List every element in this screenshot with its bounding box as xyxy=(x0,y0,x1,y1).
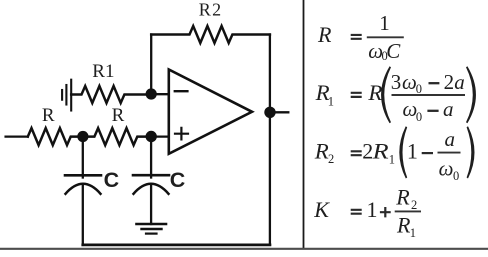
svg-text:0: 0 xyxy=(453,169,459,183)
numerator minus xyxy=(429,82,440,84)
svg-text:a: a xyxy=(454,70,465,94)
plus symbol xyxy=(175,128,188,140)
resistor R1 xyxy=(71,86,151,103)
resistor R (left) xyxy=(28,128,83,145)
svg-text:a: a xyxy=(445,127,456,151)
svg-text:ω: ω xyxy=(439,156,454,180)
svg-text:0: 0 xyxy=(416,110,422,124)
minus xyxy=(422,152,433,154)
wire C1 to bottom rail xyxy=(82,185,84,245)
svg-text:C: C xyxy=(104,168,120,192)
svg-text:1: 1 xyxy=(379,11,390,35)
wire minus node to op-amp xyxy=(151,93,169,95)
fraction bar xyxy=(438,152,461,154)
capacitor C1 plate xyxy=(65,174,101,177)
wire input lead xyxy=(6,135,28,137)
formula row 2: R1 = R((3w0-2a)/(w0-a)) xyxy=(315,66,476,124)
fraction bar xyxy=(367,36,404,38)
svg-text:R: R xyxy=(371,139,389,164)
capacitor C2 top lead xyxy=(150,137,152,178)
svg-text:R: R xyxy=(112,105,125,126)
wire to plus input xyxy=(151,135,169,137)
minus symbol xyxy=(175,90,188,92)
svg-text:a: a xyxy=(443,97,454,121)
formula row 4: K = 1 + R2/R1 xyxy=(313,185,421,240)
svg-text:R: R xyxy=(317,22,332,47)
svg-text:R: R xyxy=(395,185,410,210)
svg-text:1: 1 xyxy=(389,152,395,166)
equals xyxy=(351,35,362,39)
capacitor C1 top lead xyxy=(82,137,84,178)
resistor R (second) xyxy=(83,128,151,145)
denominator minus xyxy=(427,110,438,112)
svg-text:1: 1 xyxy=(367,197,378,222)
svg-text:R: R xyxy=(396,212,411,237)
bottom border xyxy=(0,248,488,250)
svg-text:1: 1 xyxy=(328,95,334,109)
formula row 3: R2 = 2R1(1 - a/w0) xyxy=(314,126,475,183)
node A xyxy=(77,131,88,142)
equals xyxy=(351,93,362,97)
svg-text:1: 1 xyxy=(410,226,416,240)
svg-text:R2: R2 xyxy=(199,0,223,20)
svg-text:R: R xyxy=(367,80,383,105)
node D output xyxy=(264,107,275,118)
right paren xyxy=(466,66,476,123)
svg-text:R: R xyxy=(42,105,55,126)
capacitor C2 plate xyxy=(133,174,169,177)
equals xyxy=(351,151,362,155)
right paren xyxy=(467,126,475,178)
svg-text:R1: R1 xyxy=(92,61,114,82)
wire C2 to ground xyxy=(150,185,152,225)
fraction bar xyxy=(392,94,466,96)
svg-text:1: 1 xyxy=(407,139,418,164)
equals xyxy=(351,210,362,214)
svg-text:C: C xyxy=(386,39,401,63)
wire minus node up to R2 xyxy=(150,35,152,95)
formula row 1: R = 1/(w0 C) xyxy=(317,11,404,63)
node C xyxy=(146,88,157,99)
plus xyxy=(380,207,391,217)
node B xyxy=(146,131,157,142)
wire output stub xyxy=(270,111,288,113)
left paren xyxy=(399,126,407,178)
svg-text:C: C xyxy=(170,168,186,192)
ground sideways at R1 xyxy=(62,80,71,111)
resistor R2 xyxy=(151,26,270,43)
svg-text:K: K xyxy=(313,197,330,222)
divider line xyxy=(303,0,305,249)
fraction bar xyxy=(395,210,421,212)
wire bottom rail xyxy=(83,243,270,246)
svg-text:2: 2 xyxy=(411,198,417,212)
capacitor C1 curved plate xyxy=(66,184,101,194)
svg-text:2: 2 xyxy=(328,152,334,166)
svg-text:ω: ω xyxy=(402,70,417,94)
svg-text:2: 2 xyxy=(444,70,455,94)
ground below C2 xyxy=(137,224,167,234)
wire right vertical feedback/output xyxy=(269,35,271,245)
left paren xyxy=(381,66,391,123)
svg-text:3: 3 xyxy=(391,70,402,94)
op-amp U1 xyxy=(169,70,252,154)
capacitor C2 curved plate xyxy=(134,184,169,194)
